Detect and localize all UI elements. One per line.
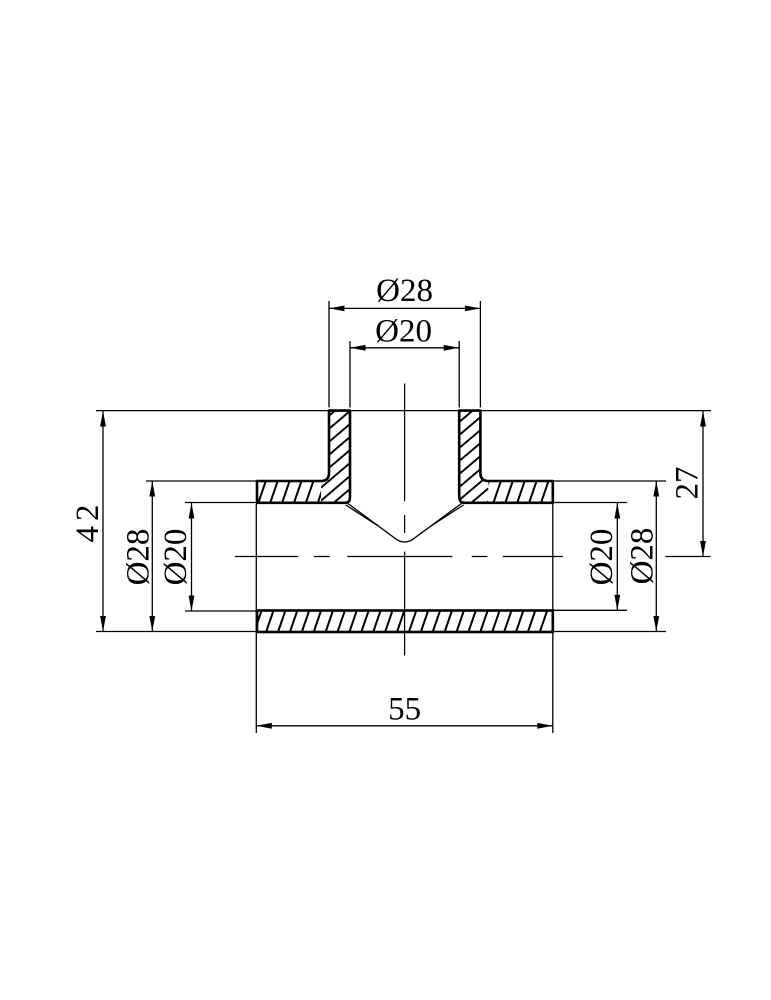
dim OD28 right [655, 481, 657, 632]
dim 42 left [102, 411, 104, 632]
dim OD20 right [616, 503, 618, 610]
dim 27 right [702, 411, 704, 557]
svg-text:Ø20: Ø20 [158, 529, 194, 586]
svg-text:Ø28: Ø28 [625, 528, 661, 585]
svg-text:Ø28: Ø28 [121, 529, 157, 586]
wire ext 55 left vertical [255, 504, 257, 733]
bottom tube wall outline [257, 611, 553, 633]
hatch top-left wall [235, 481, 326, 503]
wire ext OD20-right top [553, 502, 627, 504]
dim OD20 top [350, 347, 459, 349]
hatch right branch bar [458, 293, 488, 553]
wire ext OD20-top verticals [349, 341, 351, 407]
dim OD28 top [329, 307, 480, 309]
wire ext OD28-top verticals [328, 301, 330, 407]
node vertical centreline [404, 384, 406, 502]
wire top extension line y=410.6 [96, 410, 711, 412]
node horizontal centreline [235, 556, 298, 558]
hatch top-right wall [458, 481, 561, 503]
svg-text:Ø20: Ø20 [375, 313, 432, 349]
bevel cone inner left line [346, 505, 378, 526]
wire ext OD28-right bottom [553, 631, 666, 633]
dim 55 bottom [256, 725, 553, 727]
bevel cone inner right line [431, 505, 463, 526]
hatch bottom wall [230, 611, 559, 633]
right L-section outline (branch wall + tube top wall right) [459, 411, 553, 503]
wire ext 27 bottom (centre line stub) [665, 556, 710, 558]
svg-text:55: 55 [388, 692, 421, 728]
wire ext OD20-right bottom [553, 609, 627, 611]
wire ext OD20-left bottom [185, 610, 257, 612]
left L-section outline (branch wall + tube top wall left) [257, 411, 350, 503]
dim OD20 left [191, 503, 193, 611]
wire ext OD28-right top [553, 480, 666, 482]
wire ext OD20-left top [185, 502, 257, 504]
svg-text:Ø28: Ø28 [376, 273, 433, 309]
wire ext OD28-left top [146, 480, 257, 482]
svg-text:Ø20: Ø20 [584, 529, 620, 586]
dim OD28 left [151, 481, 153, 632]
wire ext 55 right vertical [552, 504, 554, 733]
hatch left branch bar [321, 358, 351, 552]
svg-text:42: 42 [70, 500, 106, 543]
wire bottom-left extension line y=631.5 [96, 631, 257, 633]
svg-text:27: 27 [670, 467, 706, 500]
bevel cone outer line [346, 502, 464, 542]
